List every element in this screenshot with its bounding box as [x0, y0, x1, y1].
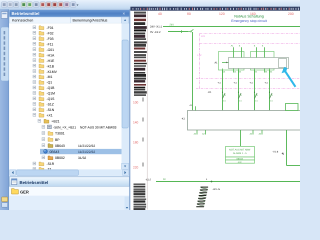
selected row — [40, 149, 122, 154]
svg-text:T3001: T3001 — [55, 132, 65, 136]
contact branch wires — [222, 70, 224, 111]
wire: 0V feed — [168, 31, 188, 33]
svg-text:0V -X1:2: 0V -X1:2 — [150, 31, 161, 34]
toolbar — [0, 0, 300, 10]
svg-text:L01: L01 — [201, 35, 206, 38]
relay top pins — [233, 47, 235, 57]
collapsed panel bar: Betriebsmittel — [9, 177, 129, 187]
panel body — [9, 10, 130, 211]
svg-text:180: 180 — [133, 141, 139, 145]
wire: drop to -K1 — [192, 32, 194, 111]
safety zone boundary (magenta dash-dot) — [200, 33, 301, 35]
svg-text:-Q1B: -Q1B — [47, 86, 56, 90]
block bottom pins — [196, 130, 198, 135]
svg-text:-F03: -F03 — [47, 37, 54, 41]
svg-text:220: 220 — [133, 166, 139, 170]
svg-text:11/21/22/32: 11/21/22/32 — [78, 144, 95, 148]
svg-text:Betriebsmittel: Betriebsmittel — [20, 180, 49, 185]
svg-text:31/32: 31/32 — [78, 156, 86, 160]
svg-text:-Q1: -Q1 — [47, 81, 53, 85]
GER project row — [9, 187, 129, 196]
svg-text:GER: GER — [20, 190, 29, 195]
tree h-scrollbar — [9, 169, 128, 175]
contact symbol — [255, 93, 258, 99]
svg-text:BP: BP — [55, 138, 60, 142]
svg-text:Benennung/Anschlus: Benennung/Anschlus — [73, 19, 108, 23]
svg-text:-H1A: -H1A — [47, 53, 55, 57]
svg-text:-Q1M: -Q1M — [47, 92, 56, 96]
svg-text:-S0N_=X_=B21: -S0N_=X_=B21 — [53, 126, 76, 130]
tree background — [9, 23, 121, 169]
svg-text:ALARM 1 - 5: ALARM 1 - 5 — [233, 152, 247, 155]
schematic page — [130, 11, 300, 210]
svg-text:-S1N: -S1N — [47, 108, 55, 112]
annotation arrow — [282, 67, 297, 87]
svg-text:×: × — [123, 11, 126, 16]
relay bottom pins — [222, 69, 224, 73]
svg-text:-S1Z: -S1Z — [47, 103, 54, 107]
contact symbol — [223, 93, 226, 99]
svg-text:NOT-AUS 30 MIT ABW03: NOT-AUS 30 MIT ABW03 — [80, 126, 117, 130]
junction — [211, 181, 213, 183]
svg-text:100: 100 — [133, 101, 139, 105]
svg-text:-M1: -M1 — [47, 75, 53, 79]
svg-text:11/21/22/32: 11/21/22/32 — [78, 150, 95, 154]
svg-text:-F11: -F11 — [47, 42, 54, 46]
panel title bar: Betriebsmittel — [9, 10, 129, 17]
op loops over relay — [219, 52, 245, 71]
relay left pin A1 — [222, 62, 229, 64]
svg-text:-K1B: -K1B — [47, 64, 55, 68]
svg-text:120: 120 — [219, 12, 225, 16]
left dock strip — [0, 10, 9, 211]
svg-text:-G01: -G01 — [47, 48, 55, 52]
toolbar icons — [2, 2, 79, 8]
relay U1 body — [229, 58, 289, 69]
svg-text:0V: 0V — [163, 178, 166, 181]
svg-text:L02: L02 — [198, 54, 203, 57]
main device block — [188, 111, 301, 131]
svg-text:+X1: +X1 — [47, 114, 53, 118]
switch S1 — [188, 29, 193, 31]
contact symbol — [239, 93, 242, 99]
svg-text:0B002: 0B002 — [55, 156, 65, 160]
svg-text:40: 40 — [158, 12, 162, 16]
svg-text:0B643: 0B643 — [50, 150, 60, 154]
svg-text:-K1MV: -K1MV — [47, 70, 58, 74]
frame left dense table — [134, 12, 147, 96]
wire: +24V rail — [163, 26, 300, 28]
svg-text:-F02: -F02 — [47, 31, 54, 35]
description box — [226, 147, 255, 158]
svg-text:Kennzeichen: Kennzeichen — [12, 19, 33, 23]
svg-text:-W1 4x: -W1 4x — [213, 188, 221, 191]
svg-text:-X1:2: -X1:2 — [145, 178, 152, 181]
svg-text:-Q1S: -Q1S — [47, 97, 56, 101]
svg-text:Betriebsmittel: Betriebsmittel — [12, 11, 40, 16]
svg-text:-S1R: -S1R — [47, 162, 55, 166]
block top pin stub — [195, 106, 197, 110]
cable -W1 ladder — [196, 187, 208, 208]
column header row — [9, 17, 129, 23]
vertical dock tab — [1, 27, 9, 81]
svg-text:-H1E: -H1E — [47, 59, 55, 63]
svg-text:-K1: -K1 — [181, 118, 186, 121]
svg-text:-X1:8: -X1:8 — [273, 151, 279, 154]
svg-text:=B21: =B21 — [52, 120, 60, 124]
svg-text:0B643: 0B643 — [55, 144, 65, 148]
contact symbol — [270, 93, 273, 99]
svg-text:80: 80 — [187, 12, 191, 16]
svg-text:-F01: -F01 — [47, 26, 54, 30]
svg-text:Emergency stop circuit: Emergency stop circuit — [231, 19, 266, 23]
frame top dense band — [130, 7, 300, 11]
svg-text:200: 200 — [288, 12, 294, 16]
tree v-scrollbar — [122, 17, 129, 23]
device tree — [33, 26, 122, 172]
svg-text:24V -X1:1: 24V -X1:1 — [150, 26, 162, 29]
svg-text:140: 140 — [133, 121, 139, 125]
svg-text:-K1: -K1 — [208, 91, 213, 94]
